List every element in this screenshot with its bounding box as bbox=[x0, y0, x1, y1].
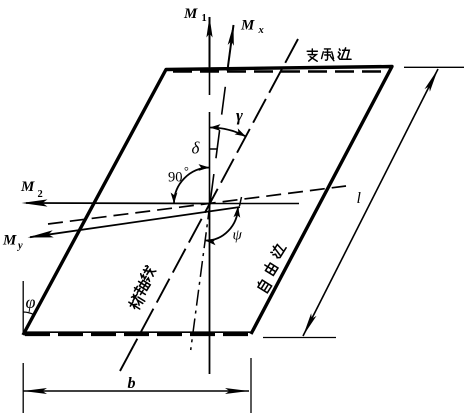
svg-text:y: y bbox=[16, 241, 23, 252]
Mx extension below center (dash-dot, psi line) bbox=[191, 204, 210, 351]
label zhi-cheng-bian (support edge) bbox=[307, 49, 317, 61]
My arrow line bbox=[30, 207, 240, 237]
delta tick bbox=[210, 148, 218, 150]
My arrowhead bbox=[27, 230, 54, 241]
phi corner vertical line bbox=[22, 281, 24, 334]
svg-text:2: 2 bbox=[38, 189, 43, 200]
90-degree arc bbox=[174, 168, 210, 204]
shallow dashed line through center bbox=[48, 186, 346, 224]
svg-text:M: M bbox=[183, 6, 198, 22]
svg-text:ψ: ψ bbox=[233, 228, 243, 244]
psi arc arrowhead top end bbox=[233, 206, 241, 218]
bridge axis solid lower segment bbox=[120, 346, 133, 371]
b dimension line bbox=[23, 390, 249, 392]
90-arc arrowhead left end bbox=[171, 193, 178, 204]
vertical M1 axis above center (dash) bbox=[209, 66, 211, 204]
svg-text:δ: δ bbox=[192, 139, 201, 158]
svg-text:φ: φ bbox=[26, 292, 36, 312]
svg-text:b: b bbox=[128, 375, 136, 392]
svg-text:γ: γ bbox=[236, 106, 243, 125]
gamma arc arrowhead left end bbox=[210, 124, 221, 131]
gamma arc arrowhead right end bbox=[235, 128, 248, 139]
b dim arrowhead left bbox=[23, 388, 47, 394]
label qiao-zhou-xian (bridge axis, rotated) bbox=[127, 292, 146, 311]
svg-text:90: 90 bbox=[168, 170, 183, 186]
svg-text:x: x bbox=[258, 25, 264, 36]
M1 arrow shaft bbox=[209, 17, 211, 67]
tick crossing shallow dashed line bbox=[240, 197, 242, 206]
psi arc bbox=[205, 207, 238, 241]
vertical M1 axis below center (solid) bbox=[209, 204, 211, 375]
M2 arrow line bbox=[26, 202, 210, 205]
Mx dashed line from edge to center bbox=[210, 67, 228, 204]
svg-text:M: M bbox=[20, 179, 35, 195]
l dim arrowhead bottom bbox=[300, 313, 316, 337]
l dimension top extension line bbox=[404, 66, 464, 68]
svg-text:l: l bbox=[357, 190, 362, 207]
b dim arrowhead right bbox=[225, 388, 249, 394]
support dashed line under top edge bbox=[173, 70, 389, 72]
l dim arrowhead top bbox=[425, 68, 441, 92]
bridge axis line (dashed) bbox=[133, 39, 298, 346]
plate outline: left, top, right edges bbox=[23, 67, 392, 336]
svg-text:1: 1 bbox=[202, 13, 207, 24]
svg-text:M: M bbox=[240, 18, 255, 34]
horizontal thin line right of center bbox=[210, 203, 299, 205]
M1 arrowhead bbox=[206, 17, 212, 38]
Mx arrow shaft (solid above edge) bbox=[228, 25, 234, 67]
plate bottom edge thin line bbox=[23, 331, 251, 333]
label zi-you-bian (free edge, rotated) bbox=[256, 279, 272, 293]
l dimension line bbox=[303, 69, 438, 336]
l dimension bottom extension line bbox=[263, 337, 336, 339]
phi arc bbox=[23, 312, 34, 315]
svg-text:°: ° bbox=[184, 164, 189, 178]
b dimension left extension line bbox=[22, 363, 24, 413]
M2 arrowhead bbox=[22, 199, 48, 206]
gamma arc bbox=[210, 127, 246, 136]
90-arc arrowhead top end bbox=[199, 164, 210, 171]
svg-text:M: M bbox=[2, 233, 17, 249]
b dimension right extension line bbox=[250, 358, 252, 413]
plate bottom edge thick dashes bbox=[25, 332, 251, 336]
Mx arrowhead bbox=[228, 24, 237, 46]
psi arc arrowhead bottom end bbox=[205, 237, 217, 245]
